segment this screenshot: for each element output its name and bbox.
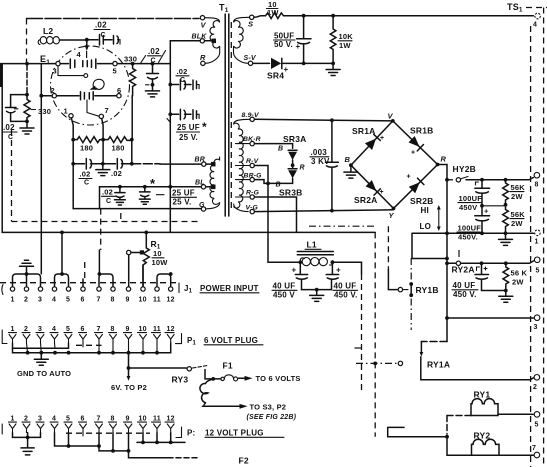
arrow TO 6 VOLTS — [239, 374, 301, 383]
vibrator contact bars row1 — [70, 59, 96, 68]
relay contact RY1A — [356, 357, 450, 371]
connector J1 pin 6 stub — [82, 279, 84, 287]
bracket left of 6V plug — [2, 330, 7, 344]
svg-text:2: 2 — [24, 326, 28, 333]
reed dash-dot upper — [86, 51, 88, 61]
svg-text:.02: .02 — [111, 169, 122, 178]
connector P1(12V) numbers — [11, 416, 175, 423]
svg-text:330: 330 — [38, 107, 51, 116]
svg-text:SR2A: SR2A — [354, 195, 377, 205]
wire rail top (BL line) — [100, 186, 202, 188]
node 330 upper junction — [131, 62, 135, 66]
svg-text:+: + — [284, 65, 289, 74]
svg-text:9: 9 — [126, 416, 130, 423]
wire R-G down to bus — [254, 197, 296, 232]
svg-text:.02: .02 — [148, 47, 160, 56]
connector J1 group bar 1-2-3 with ground — [13, 260, 41, 286]
svg-text:9: 9 — [126, 297, 130, 304]
pin BR of T1 — [195, 157, 216, 167]
svg-text:.02: .02 — [3, 123, 15, 132]
svg-text:11: 11 — [153, 416, 161, 423]
capacitor .02 C (far left) — [3, 95, 28, 141]
svg-text:5: 5 — [66, 326, 70, 333]
node bleeder (output) — [504, 261, 508, 265]
svg-text:10: 10 — [139, 416, 147, 423]
relay contact RY3 — [172, 366, 212, 385]
ground at bridge B — [344, 168, 358, 179]
svg-text:4: 4 — [77, 50, 82, 59]
svg-text:450 V.: 450 V. — [453, 290, 477, 299]
svg-text:SR3A: SR3A — [283, 134, 306, 144]
svg-text:R: R — [200, 53, 206, 62]
node 40UF top (RY2A row) — [480, 261, 484, 265]
wire pin7 down to resistor row — [102, 119, 103, 140]
svg-text:100UF: 100UF — [458, 224, 482, 233]
svg-text:9: 9 — [126, 326, 130, 333]
svg-text:+: + — [292, 266, 297, 275]
fuse F1 — [213, 361, 237, 381]
capacitor 40UF 450V (L1 left) — [272, 262, 317, 299]
pin 1 — [69, 114, 73, 118]
resistor 56K 2W (upper) — [503, 180, 526, 203]
svg-text:BK-R: BK-R — [243, 136, 261, 143]
node 50UF top — [302, 14, 306, 18]
svg-text:3: 3 — [38, 297, 42, 304]
wire RY1A to terminal 2 — [421, 371, 534, 380]
pin R of T1 — [201, 61, 205, 65]
wire J1-7 riser — [98, 250, 100, 274]
wire pin2 to contact row2 — [57, 95, 80, 97]
wire pin2 vertical down to J1-3 — [40, 64, 42, 274]
node BLK caps upper — [168, 83, 172, 87]
ground at 10K bottom — [326, 65, 340, 76]
wire BLK tap into winding — [205, 40, 213, 42]
svg-text:HY2B: HY2B — [453, 164, 476, 174]
capacitor 40UF 450V (output) — [452, 263, 506, 299]
svg-text:V: V — [201, 21, 207, 30]
node output bleeder bottom with ground — [504, 289, 508, 293]
svg-text:40 UF: 40 UF — [334, 282, 357, 291]
capacitor 100UF 450V (lower) — [457, 206, 490, 242]
chassis dash at 6V pin6 — [76, 344, 102, 346]
svg-text:5: 5 — [66, 297, 70, 304]
svg-text:40 UF: 40 UF — [273, 282, 296, 291]
svg-text:+: + — [380, 189, 384, 196]
svg-text:6V. TO P2: 6V. TO P2 — [111, 383, 147, 392]
pin 4 arrowhead — [85, 45, 89, 51]
wire left edge vertical — [1, 64, 3, 233]
svg-text:56 K: 56 K — [511, 269, 528, 278]
svg-text:3 KV: 3 KV — [311, 157, 330, 166]
wire 8.9-V to bridge V — [254, 119, 392, 121]
svg-text:450V.: 450V. — [458, 233, 478, 242]
wire L1 output right — [332, 262, 361, 274]
relay contact RY2A — [447, 250, 534, 275]
svg-text:SR4: SR4 — [267, 71, 284, 81]
wire left branch down — [26, 65, 28, 93]
tap R-G — [236, 190, 260, 200]
wire LO segment to HI bus — [412, 233, 447, 258]
svg-text:2: 2 — [24, 416, 28, 423]
terminal TS1-8 — [534, 172, 540, 188]
diode SR4 — [267, 58, 289, 81]
tap R-V — [236, 158, 260, 168]
svg-text:6: 6 — [81, 297, 85, 304]
svg-text:40 UF: 40 UF — [453, 281, 476, 290]
12V bus 10-11-12 — [137, 433, 185, 445]
wire contact row2 to pin 6 — [95, 95, 117, 97]
svg-text:5: 5 — [66, 416, 70, 423]
inductor L2 — [38, 26, 59, 45]
svg-text:C: C — [8, 134, 13, 141]
svg-text:SR1A: SR1A — [352, 126, 375, 136]
node bridge V — [391, 119, 395, 123]
wire top-right run to TS1 — [284, 15, 534, 17]
svg-text:P:: P: — [187, 429, 195, 438]
svg-text:C: C — [84, 180, 89, 187]
label J1 POWER INPUT — [179, 283, 259, 295]
capacitor 100UF 450V (upper) — [458, 180, 490, 212]
HI-LO double arrow — [437, 205, 441, 231]
buffer arm arrow — [90, 86, 97, 90]
node cap .02 junction — [151, 62, 155, 66]
node BLK-BL junction — [168, 185, 172, 189]
relay coil RY3 (winding loops) — [200, 379, 213, 406]
relay coil RY1 — [447, 390, 534, 416]
wire J1-9 riser — [128, 255, 130, 287]
node terminal-3 tap — [445, 316, 449, 320]
chassis dashed box drops — [101, 209, 121, 250]
svg-text:S: S — [248, 20, 253, 29]
node L1 filter ground — [315, 288, 319, 292]
svg-text:4: 4 — [533, 22, 537, 29]
node HY2B on HI bus — [445, 178, 449, 182]
left edge dark bar — [0, 64, 2, 87]
svg-text:2W: 2W — [512, 278, 524, 287]
wire cap row to BR pin of T1 — [132, 163, 160, 165]
wire R-V line to L1 left node — [268, 261, 300, 263]
wire BR-G stub — [254, 180, 268, 184]
svg-text:3: 3 — [38, 326, 42, 333]
capacitor .02 C (buffer row left) — [73, 159, 101, 187]
node .003 top — [330, 118, 334, 122]
diode SR1B — [409, 126, 434, 157]
ground far-left branch — [20, 123, 34, 134]
capacitor 50UF 50V — [274, 16, 312, 64]
tap 8.9-V — [242, 112, 261, 122]
svg-text:330: 330 — [124, 55, 137, 64]
svg-text:12: 12 — [167, 416, 175, 423]
terminal TS1-5 — [534, 257, 540, 275]
svg-text:8.9-V: 8.9-V — [242, 112, 261, 119]
svg-text:450 V: 450 V — [273, 291, 295, 300]
svg-text:2W: 2W — [511, 192, 523, 201]
svg-text:7: 7 — [532, 445, 536, 452]
svg-text:1: 1 — [535, 239, 539, 246]
ground GND TO AUTO — [34, 355, 48, 366]
svg-text:RY3: RY3 — [172, 375, 189, 385]
relay contact HY2B — [447, 164, 533, 182]
svg-text:10W: 10W — [152, 258, 169, 267]
wire rail left vertical — [99, 187, 101, 209]
svg-text:BR-G: BR-G — [244, 172, 263, 179]
svg-text:BL: BL — [195, 179, 205, 186]
diode SR1A — [352, 126, 384, 150]
svg-text:1: 1 — [64, 107, 68, 116]
svg-text:10: 10 — [139, 326, 147, 333]
svg-text:25 UF: 25 UF — [172, 189, 195, 198]
svg-text:+: + — [296, 42, 301, 51]
wire pin3 to contact row1 — [60, 63, 68, 65]
svg-text:2W: 2W — [511, 219, 523, 228]
capacitor 40UF 450V (L1 right) — [317, 262, 358, 299]
svg-text:12: 12 — [167, 326, 175, 333]
wire S to top-right run — [254, 16, 266, 18]
node junction above E1 — [85, 38, 89, 42]
node 10K top — [331, 14, 335, 18]
connector P1(6V) number underlines — [9, 332, 175, 334]
connector P1(12V) Y pins — [9, 424, 174, 433]
node bridge B — [349, 163, 353, 167]
pin V of T1 — [200, 16, 204, 20]
label P1 12 VOLT PLUG — [187, 429, 284, 438]
svg-text:25 V.: 25 V. — [179, 133, 198, 142]
wire J1-4/5 riser — [60, 231, 64, 235]
wire pin1 down to resistor row — [71, 118, 73, 140]
label 25 UF 25 V with asterisk — [177, 120, 208, 142]
pin BLK of T1 — [200, 39, 204, 43]
buffer arm curl — [93, 79, 104, 89]
diode SR2B — [407, 174, 434, 207]
svg-text:POWER INPUT: POWER INPUT — [200, 284, 259, 293]
terminal TS1-7 — [532, 445, 540, 458]
connector P1(6V) numbers — [11, 326, 175, 333]
resistor 330 (at pin5 line) — [124, 55, 146, 96]
svg-text:V-G: V-G — [246, 204, 259, 211]
svg-text:G: G — [199, 202, 205, 209]
6V plug pin stubs to bus — [27, 343, 158, 353]
svg-text:8: 8 — [111, 416, 115, 423]
node between 100UF caps — [480, 204, 484, 208]
connector J1 group bar 7-8 — [98, 272, 114, 286]
wire pin3 stub down to buffer contact — [58, 66, 84, 76]
bus corner down (shield) — [374, 232, 376, 436]
svg-text:4: 4 — [52, 326, 56, 333]
resistor 180 (left) with leads — [71, 137, 103, 153]
svg-text:8: 8 — [111, 326, 115, 333]
svg-text:6: 6 — [81, 416, 85, 423]
wire R-V down to L1 — [254, 166, 268, 263]
shield dash-dot horizontal (center) — [309, 225, 374, 227]
12V bus 1-2-3 with ground — [13, 433, 41, 455]
wire to terminal 3 — [447, 317, 534, 319]
svg-text:F1: F1 — [223, 361, 233, 371]
svg-text:5: 5 — [536, 268, 540, 275]
resistor R1 10 10W — [143, 231, 168, 288]
pin S-V of T1 — [248, 61, 252, 65]
svg-text:B: B — [345, 155, 351, 164]
diode SR3A — [283, 134, 306, 164]
chassis dashed stub above J1 pin6 — [84, 262, 86, 282]
tap BR-G — [236, 172, 263, 182]
vibrator contact bars row2 — [81, 92, 94, 100]
connector J1 group bar 11-12 — [157, 272, 173, 286]
svg-text:RY2A: RY2A — [452, 265, 475, 275]
wire pin4 lead from junction — [86, 40, 88, 46]
svg-text:12: 12 — [167, 297, 175, 304]
svg-text:L2: L2 — [43, 26, 53, 36]
pin 2 — [52, 94, 56, 98]
shield dash-dot at RY1A left — [352, 347, 362, 349]
wire pin5 to 330/cap junctions — [117, 63, 170, 65]
svg-text:100UF: 100UF — [459, 194, 483, 203]
svg-text:S-V: S-V — [244, 55, 257, 62]
terminal TS1-5b — [534, 412, 540, 429]
svg-text:1: 1 — [11, 297, 15, 304]
label P1 6 VOLT PLUG — [187, 336, 263, 347]
svg-text:11: 11 — [153, 297, 161, 304]
resistor 10K 1W — [330, 16, 353, 64]
diode SR3B — [268, 165, 302, 197]
pin 5 — [113, 61, 117, 65]
pin BL of T1 — [195, 179, 216, 189]
svg-text:+: + — [411, 150, 415, 157]
connector P1(6V) Y pins — [9, 335, 174, 344]
label 25UF 25V (in box) — [172, 189, 197, 207]
pin G of T1 — [199, 202, 206, 211]
svg-text:1: 1 — [11, 326, 15, 333]
bracket right of 6V plug — [176, 334, 182, 344]
svg-text:3: 3 — [534, 324, 538, 331]
svg-text:2: 2 — [533, 384, 537, 391]
relay coil RY2 — [447, 431, 534, 456]
svg-text:+: + — [336, 266, 341, 275]
svg-text:4: 4 — [52, 416, 56, 423]
rheostat slider R1 — [127, 250, 145, 254]
svg-text:HI: HI — [421, 206, 429, 215]
svg-text:6: 6 — [117, 86, 121, 95]
relay contact RY1B — [388, 258, 438, 330]
terminal TS1-3 — [534, 315, 540, 331]
node bottom of left branch — [25, 120, 29, 124]
svg-text:.02: .02 — [80, 170, 91, 179]
node bridge R — [436, 163, 440, 167]
wire bottom feed — [388, 436, 447, 438]
svg-text:SR2B: SR2B — [410, 196, 433, 206]
12V pin6 stub — [82, 433, 84, 436]
6V plug bus upper — [13, 343, 69, 348]
svg-text:SR1B: SR1B — [410, 126, 433, 136]
svg-text:5: 5 — [535, 422, 539, 429]
svg-text:.02: .02 — [102, 188, 113, 197]
tap V-G — [246, 204, 259, 214]
svg-text:450 V.: 450 V. — [334, 291, 358, 300]
svg-text:+: + — [407, 174, 411, 181]
node filter caps top — [480, 178, 484, 182]
small circle contact end — [84, 74, 88, 78]
shield dash-dot from L1 corner — [361, 274, 363, 392]
svg-text:10K: 10K — [339, 32, 354, 41]
svg-text:1: 1 — [11, 416, 15, 423]
connector J1 pin numbers — [11, 297, 175, 304]
svg-text:180: 180 — [80, 144, 93, 153]
reed row2 to pin 7 — [87, 100, 99, 116]
pin 7 — [99, 114, 103, 118]
svg-text:12 VOLT PLUG: 12 VOLT PLUG — [205, 429, 264, 438]
wire 12V pin9 to F2 — [129, 451, 169, 458]
12V bus 4-5-7 — [55, 433, 101, 448]
svg-text:V: V — [388, 112, 394, 121]
wire S-V row — [253, 62, 270, 64]
svg-text:7: 7 — [97, 297, 101, 304]
node BLK caps lower — [168, 112, 172, 116]
node RY1A tap on shield — [373, 362, 377, 366]
node bridge Y — [392, 207, 396, 211]
capacitor 25UF (in box) with ground — [139, 185, 164, 204]
chassis dash at 12V pin6 — [66, 432, 150, 434]
svg-text:R: R — [300, 165, 305, 172]
svg-text:2: 2 — [51, 86, 55, 95]
shield dash-dot vertical B — [387, 226, 389, 269]
svg-text:10: 10 — [153, 249, 162, 258]
node cap row left — [71, 162, 75, 166]
arrow TO S3 P2 — [203, 403, 297, 422]
connector J1 pin 10 riser — [142, 265, 144, 287]
node RY2A tap on HI bus — [445, 261, 449, 265]
capacitor .02 C (BLK line upper) — [170, 67, 199, 90]
pin 6 — [117, 94, 121, 98]
inductor L1 — [297, 240, 333, 266]
node between 56K resistors — [504, 203, 508, 207]
svg-text:2: 2 — [24, 297, 28, 304]
wire RY1A feed from HI bus — [421, 341, 447, 343]
T1 secondary lower winding — [234, 119, 250, 211]
node cap row mid with ground — [101, 162, 105, 166]
diode SR2A — [354, 180, 384, 205]
wire BLK left and down (to BL and J1-12) — [170, 41, 200, 233]
wire verticals resistor row to cap row — [73, 140, 132, 164]
svg-text:450V: 450V — [459, 203, 477, 212]
svg-text:*: * — [202, 120, 207, 134]
capacitor .003 3KV — [310, 120, 338, 210]
svg-text:50 V.: 50 V. — [274, 40, 293, 49]
svg-text:180: 180 — [112, 144, 125, 153]
svg-text:BLK: BLK — [192, 34, 208, 41]
svg-text:.02: .02 — [95, 21, 107, 30]
TS1 dashed strip lines — [526, 8, 547, 467]
svg-text:56K: 56K — [511, 210, 526, 219]
svg-text:5: 5 — [113, 67, 117, 76]
resistor 330 (far left) — [24, 95, 51, 122]
wire V-G to bridge Y — [254, 210, 393, 212]
node left branch junction — [25, 62, 29, 66]
svg-text:3: 3 — [53, 67, 57, 76]
capacitor .02 C (top left) — [87, 21, 120, 46]
wire pin2 to left vertical — [41, 95, 52, 97]
svg-text:R-G: R-G — [246, 190, 260, 197]
node .003 bottom — [330, 209, 334, 213]
svg-text:.003: .003 — [311, 148, 328, 157]
wire left rail vertical to bottom — [72, 164, 74, 209]
svg-text:8: 8 — [535, 182, 539, 189]
svg-text:10: 10 — [139, 297, 147, 304]
svg-text:3: 3 — [38, 416, 42, 423]
svg-text:7: 7 — [105, 106, 109, 115]
svg-text:R-V: R-V — [246, 158, 260, 165]
wire BK-R to SR3A — [254, 144, 292, 149]
wire RY1 left vertical to RY2 node — [446, 416, 448, 435]
svg-text:GND TO AUTO: GND TO AUTO — [17, 369, 71, 378]
